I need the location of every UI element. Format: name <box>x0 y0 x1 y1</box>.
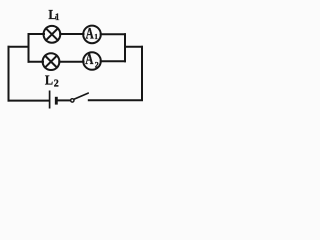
svg-text:L: L <box>45 72 53 88</box>
svg-text:2: 2 <box>54 79 59 90</box>
svg-text:1: 1 <box>55 12 60 22</box>
svg-text:A: A <box>86 25 94 42</box>
svg-text:2: 2 <box>95 60 99 69</box>
svg-text:A: A <box>85 50 93 67</box>
svg-text:1: 1 <box>94 33 98 41</box>
